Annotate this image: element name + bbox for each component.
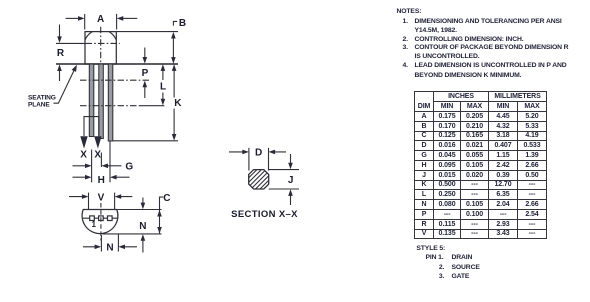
dimension P arrow shafts xyxy=(144,48,146,99)
svg-text:SEATING: SEATING xyxy=(28,95,56,102)
X cut bracket xyxy=(84,117,99,136)
seating plane line xyxy=(56,63,178,65)
dimension R arrow shafts xyxy=(59,25,61,39)
flat top extension line xyxy=(117,209,162,211)
dimension D lines xyxy=(229,151,286,153)
svg-text:N: N xyxy=(106,242,113,253)
arrowhead H right xyxy=(110,175,117,180)
dimension V lines xyxy=(69,196,132,198)
svg-text:PLANE: PLANE xyxy=(28,102,50,109)
svg-text:P: P xyxy=(142,68,149,79)
svg-text:N: N xyxy=(139,221,146,232)
arrowhead N lower left xyxy=(95,245,102,250)
body top extension line xyxy=(116,31,178,33)
arrowhead N lower right xyxy=(118,245,125,250)
lead cross-section octagon xyxy=(249,170,269,189)
svg-text:L: L xyxy=(160,81,166,92)
arrowhead H left xyxy=(85,175,92,180)
dimension H lines xyxy=(73,176,87,178)
svg-text:G: G xyxy=(125,161,133,172)
dimension J arrow shafts xyxy=(290,154,292,205)
bottom view pin row line xyxy=(83,217,118,219)
svg-text:K: K xyxy=(174,98,182,109)
body vertical center line xyxy=(100,27,102,64)
arrowhead A right xyxy=(117,16,124,21)
arrowhead C down xyxy=(157,227,162,234)
arrowhead L up xyxy=(161,64,166,71)
arrowhead D left xyxy=(242,150,249,155)
dimension C bracket and line xyxy=(160,197,164,233)
arrowhead L down xyxy=(161,99,166,106)
svg-text:R: R xyxy=(57,48,65,59)
lead 1 xyxy=(89,64,94,137)
dimension N lower lines xyxy=(83,246,137,248)
svg-text:C: C xyxy=(163,193,170,204)
dimension table xyxy=(414,91,547,239)
dimension A lines xyxy=(66,17,80,19)
arrowhead C up xyxy=(157,210,162,217)
arrowhead R up xyxy=(57,64,62,71)
dimension L line xyxy=(162,69,164,100)
body dome arc xyxy=(85,29,116,40)
dimension B line xyxy=(172,36,174,60)
style 5 block xyxy=(416,245,445,252)
seating plane leader xyxy=(54,68,76,103)
arrowhead J down xyxy=(288,163,293,170)
arrowhead V left xyxy=(82,194,89,199)
P level dash-dot line xyxy=(80,79,150,81)
arrowhead K down xyxy=(172,134,177,141)
dimension K line xyxy=(173,69,175,136)
bottom view pin 1 xyxy=(90,216,95,221)
section arrow X2 xyxy=(94,136,101,148)
arrowhead N upper up xyxy=(141,234,146,241)
arrowhead R down xyxy=(57,36,62,43)
arrowhead J up xyxy=(288,189,293,196)
lead end line xyxy=(113,140,178,142)
bottom view center line xyxy=(100,203,102,241)
bottom tangent extension line xyxy=(103,233,162,235)
arrowhead V right xyxy=(115,194,122,199)
octagon top extension line xyxy=(269,169,299,171)
arrowhead G right xyxy=(101,164,108,169)
svg-text:D: D xyxy=(255,148,262,159)
section arrow X1 xyxy=(80,136,87,148)
dimension N upper arrow shafts xyxy=(142,198,144,253)
svg-text:V: V xyxy=(98,192,105,203)
package body outline (front view) xyxy=(85,32,116,64)
arrowhead seating plane leader xyxy=(72,65,77,72)
svg-text:X: X xyxy=(80,149,87,160)
svg-text:H: H xyxy=(98,175,105,186)
arrowhead G left xyxy=(85,164,92,169)
G H extension lines xyxy=(91,150,93,183)
arrowhead N upper down xyxy=(141,203,146,210)
dimension G lines xyxy=(73,165,87,167)
svg-text:J: J xyxy=(288,175,294,186)
lead 3 xyxy=(108,64,113,141)
svg-text:X: X xyxy=(94,149,101,160)
arrowhead P down xyxy=(143,57,148,64)
arrowhead B down xyxy=(171,57,176,64)
svg-text:1: 1 xyxy=(91,220,96,229)
bottom view pin 3 xyxy=(108,216,113,221)
dimension B bracket xyxy=(173,21,177,25)
body shoulder line R level xyxy=(56,42,86,44)
bottom view outline xyxy=(82,210,118,234)
lead 2 xyxy=(99,64,104,139)
L level dash-dot line xyxy=(80,105,139,107)
arrowhead K up xyxy=(172,64,177,71)
svg-text:B: B xyxy=(179,18,186,29)
svg-text:SECTION X–X: SECTION X–X xyxy=(231,209,298,220)
bottom view pin 2 xyxy=(99,216,104,221)
arrowhead D right xyxy=(269,150,276,155)
octagon bottom extension line xyxy=(269,188,299,190)
arrowhead A left xyxy=(78,16,85,21)
notes block xyxy=(397,8,422,15)
svg-text:A: A xyxy=(97,14,104,25)
arrowhead P up xyxy=(143,81,148,88)
arrowhead B up xyxy=(171,32,176,39)
